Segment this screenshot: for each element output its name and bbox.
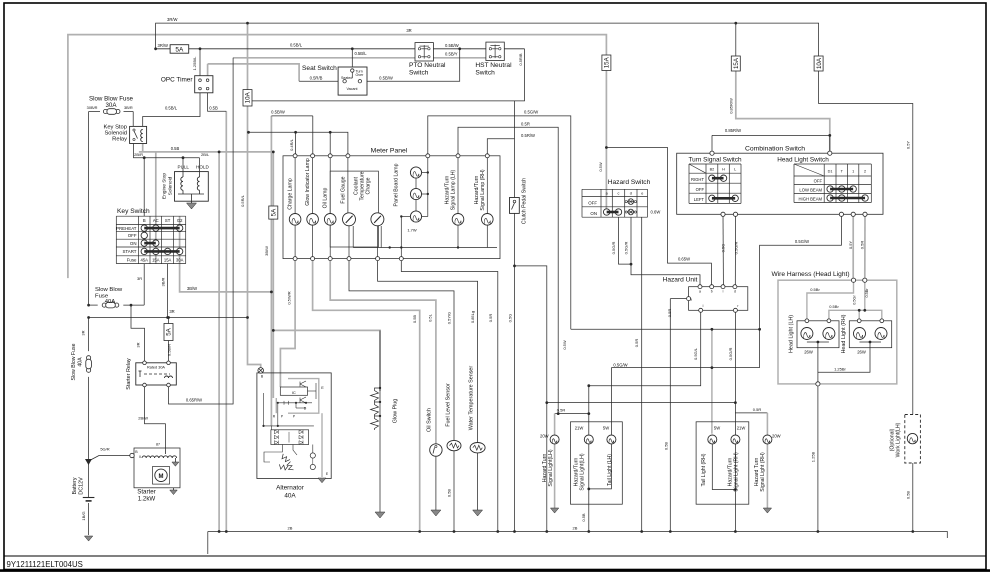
svg-text:Alternator: Alternator — [276, 485, 305, 492]
svg-text:0.85Lg: 0.85Lg — [470, 311, 475, 323]
svg-text:0.5W: 0.5W — [598, 162, 603, 172]
svg-text:3R: 3R — [136, 342, 141, 347]
svg-text:21W: 21W — [575, 426, 584, 431]
svg-text:26W: 26W — [857, 350, 866, 355]
svg-text:21W: 21W — [737, 426, 746, 431]
svg-text:Tail Light (LH): Tail Light (LH) — [607, 454, 613, 486]
svg-text:1.25B/L: 1.25B/L — [192, 56, 197, 71]
svg-text:0.5G/L: 0.5G/L — [693, 347, 698, 360]
svg-text:e: e — [641, 192, 643, 196]
svg-text:OFF: OFF — [128, 233, 137, 238]
svg-text:1: 1 — [852, 170, 854, 174]
svg-text:45A: 45A — [141, 258, 149, 263]
svg-text:0.5B/W: 0.5B/W — [445, 43, 459, 48]
svg-text:0.5G/W: 0.5G/W — [795, 239, 809, 244]
svg-text:9Y1211121ELT004US: 9Y1211121ELT004US — [7, 560, 83, 569]
svg-text:0.5B: 0.5B — [581, 513, 586, 522]
svg-text:15A: 15A — [152, 258, 160, 263]
svg-text:Over: Over — [356, 73, 365, 77]
svg-text:0.65W: 0.65W — [678, 257, 690, 262]
svg-text:Charge: Charge — [366, 177, 372, 194]
svg-text:26W: 26W — [804, 350, 813, 355]
svg-text:15A: 15A — [733, 57, 740, 69]
svg-text:START: START — [123, 249, 137, 254]
svg-text:E: E — [321, 386, 324, 390]
svg-text:0.5B: 0.5B — [447, 489, 452, 498]
svg-text:Head Light (RH): Head Light (RH) — [841, 314, 847, 353]
svg-text:Slow Blow Fuse: Slow Blow Fuse — [71, 343, 77, 380]
svg-text:HIGH BEAM: HIGH BEAM — [799, 197, 823, 202]
svg-text:b: b — [711, 290, 713, 294]
svg-text:87: 87 — [156, 443, 160, 447]
svg-text:Seat Switch: Seat Switch — [302, 65, 337, 72]
svg-text:LEFT: LEFT — [694, 197, 705, 202]
svg-text:0.5B: 0.5B — [906, 491, 911, 500]
svg-text:0.5G/R: 0.5G/R — [728, 348, 733, 361]
svg-text:Battery: Battery — [72, 477, 78, 494]
svg-text:0.5B/R: 0.5B/R — [167, 344, 172, 356]
svg-text:0.5G/W: 0.5G/W — [524, 110, 538, 115]
svg-text:1.25B: 1.25B — [811, 451, 816, 462]
svg-text:OFF: OFF — [696, 187, 705, 192]
svg-text:0.5B: 0.5B — [171, 146, 180, 151]
svg-text:PTO Neutral: PTO Neutral — [409, 62, 446, 69]
svg-text:a: a — [699, 290, 701, 294]
svg-text:0.5Br: 0.5Br — [865, 288, 869, 298]
svg-text:c: c — [618, 192, 620, 196]
svg-text:Water Temperature Senser: Water Temperature Senser — [469, 366, 475, 431]
svg-text:Switch: Switch — [409, 70, 429, 77]
svg-text:Meter Panel: Meter Panel — [371, 148, 408, 155]
svg-text:Rated 30A: Rated 30A — [147, 366, 165, 370]
svg-text:ST: ST — [165, 218, 171, 223]
svg-text:0.5R: 0.5R — [521, 121, 530, 126]
svg-text:20W: 20W — [540, 434, 549, 439]
svg-text:Hazard Unit: Hazard Unit — [663, 277, 698, 284]
svg-text:d: d — [630, 192, 632, 196]
svg-text:3R/W: 3R/W — [158, 43, 169, 48]
svg-text:0.5R: 0.5R — [860, 241, 865, 250]
svg-text:0.5B/W: 0.5B/W — [379, 76, 393, 81]
svg-text:0.5G: 0.5G — [721, 244, 726, 253]
svg-text:0.5G/R: 0.5G/R — [734, 242, 739, 255]
svg-text:0.5Gr: 0.5Gr — [853, 295, 857, 305]
svg-text:DC12V: DC12V — [79, 477, 85, 495]
svg-text:OPC Timer: OPC Timer — [161, 77, 193, 84]
svg-text:5W: 5W — [603, 426, 609, 431]
svg-text:Switch: Switch — [475, 70, 495, 77]
svg-text:0.85R/W: 0.85R/W — [729, 98, 734, 114]
svg-text:10A: 10A — [245, 91, 252, 103]
svg-text:30A: 30A — [176, 258, 184, 263]
svg-text:2B/W: 2B/W — [138, 416, 148, 421]
svg-text:3R: 3R — [81, 330, 86, 335]
svg-text:15A: 15A — [164, 258, 172, 263]
svg-text:0.5G/R: 0.5G/R — [624, 242, 629, 255]
svg-text:1.2kW: 1.2kW — [138, 496, 156, 503]
svg-text:0.5R: 0.5R — [667, 309, 672, 318]
svg-text:3B/W: 3B/W — [264, 246, 269, 256]
svg-text:0.5B: 0.5B — [664, 442, 669, 451]
svg-text:10A: 10A — [816, 57, 823, 69]
svg-text:Signal Light(LH): Signal Light(LH) — [548, 449, 554, 486]
svg-text:40A: 40A — [284, 493, 296, 500]
svg-text:0.5W/R: 0.5W/R — [287, 291, 292, 304]
svg-text:0.5Br: 0.5Br — [829, 304, 839, 309]
svg-text:Vacant: Vacant — [347, 87, 358, 91]
svg-text:IC: IC — [292, 390, 296, 395]
svg-text:0.5L: 0.5L — [428, 313, 433, 322]
svg-text:2B: 2B — [573, 526, 578, 531]
svg-text:D1: D1 — [828, 170, 833, 174]
svg-text:3R: 3R — [406, 28, 411, 33]
svg-text:3R/W: 3R/W — [167, 17, 178, 22]
svg-text:0.5R/B: 0.5R/B — [310, 76, 323, 81]
svg-text:RIGHT: RIGHT — [691, 177, 704, 182]
svg-text:5A: 5A — [271, 208, 278, 216]
svg-text:0.5B/L: 0.5B/L — [165, 106, 178, 111]
svg-text:Fuse: Fuse — [127, 257, 137, 262]
svg-text:0.5Y: 0.5Y — [906, 141, 911, 150]
svg-text:1B/G: 1B/G — [81, 511, 86, 520]
svg-text:Engine Stop: Engine Stop — [162, 173, 168, 199]
svg-text:0.5R/W: 0.5R/W — [521, 133, 535, 138]
svg-text:ON: ON — [130, 241, 137, 246]
svg-text:0.5R: 0.5R — [753, 407, 762, 412]
svg-text:0.5R: 0.5R — [557, 407, 566, 412]
svg-text:Key Switch: Key Switch — [117, 208, 150, 215]
svg-text:0.5R: 0.5R — [634, 339, 639, 348]
svg-text:a: a — [690, 298, 692, 302]
svg-text:Signal Light(LH): Signal Light(LH) — [580, 453, 586, 490]
svg-text:H: H — [722, 168, 725, 172]
svg-text:B2: B2 — [710, 168, 715, 172]
svg-text:Turn Signal Switch: Turn Signal Switch — [688, 157, 741, 164]
svg-text:30A: 30A — [105, 102, 117, 109]
svg-text:5A: 5A — [166, 327, 173, 335]
svg-text:0.5B/W: 0.5B/W — [271, 110, 285, 115]
svg-text:2B/L: 2B/L — [201, 152, 210, 157]
svg-text:3B/R: 3B/R — [124, 105, 133, 110]
svg-text:HOLD: HOLD — [196, 165, 209, 170]
svg-text:0.5B: 0.5B — [209, 106, 218, 111]
svg-text:3B/W: 3B/W — [187, 286, 197, 291]
svg-text:Tail Light (RH): Tail Light (RH) — [701, 453, 707, 486]
svg-text:Signal Light (RH): Signal Light (RH) — [760, 452, 766, 492]
svg-text:0.5R/L: 0.5R/L — [240, 194, 245, 207]
svg-text:0.5G/R: 0.5G/R — [611, 242, 616, 255]
svg-text:3R: 3R — [137, 276, 142, 281]
svg-text:40A: 40A — [78, 357, 84, 367]
svg-text:Starter Relay: Starter Relay — [126, 358, 132, 390]
svg-text:0.5R: 0.5R — [488, 314, 493, 323]
svg-text:HST Neutral: HST Neutral — [475, 62, 512, 69]
svg-text:20W: 20W — [772, 434, 781, 439]
svg-text:0.5R/B: 0.5R/B — [518, 53, 523, 66]
svg-text:B: B — [143, 218, 146, 223]
svg-text:Head Light Switch: Head Light Switch — [777, 157, 829, 164]
svg-text:Glow Indicator Lamp: Glow Indicator Lamp — [305, 158, 311, 206]
svg-text:3R: 3R — [169, 309, 174, 314]
svg-text:2B: 2B — [288, 526, 293, 531]
svg-text:Relay: Relay — [112, 137, 127, 143]
svg-text:0.6W: 0.6W — [651, 210, 661, 215]
svg-text:0.5B: 0.5B — [412, 315, 417, 324]
svg-text:Oil Switch: Oil Switch — [427, 408, 433, 432]
svg-text:OFF: OFF — [588, 201, 597, 206]
svg-text:Head Light (LH): Head Light (LH) — [789, 315, 795, 353]
svg-text:0.5B/L: 0.5B/L — [290, 43, 303, 48]
svg-text:Starter: Starter — [137, 489, 156, 496]
svg-text:Wire Harness (Head Light): Wire Harness (Head Light) — [771, 271, 849, 278]
svg-text:L: L — [734, 168, 736, 172]
svg-text:0.5G/W: 0.5G/W — [613, 363, 627, 368]
svg-text:Oil Lamp: Oil Lamp — [323, 188, 329, 209]
svg-text:Combination Switch: Combination Switch — [745, 145, 805, 152]
svg-text:2B/R: 2B/R — [134, 152, 143, 157]
svg-text:Clutch Pedal Switch: Clutch Pedal Switch — [522, 178, 528, 224]
svg-text:0.5W: 0.5W — [562, 340, 567, 350]
svg-text:1.7W: 1.7W — [407, 228, 417, 233]
svg-text:LOW BEAM: LOW BEAM — [799, 188, 822, 193]
svg-text:AC: AC — [153, 218, 159, 223]
svg-text:0.5Br: 0.5Br — [810, 287, 820, 292]
svg-text:Fuel Level Sensor: Fuel Level Sensor — [446, 383, 452, 427]
svg-text:PREHEAT: PREHEAT — [116, 226, 137, 231]
svg-text:0.5Y: 0.5Y — [848, 241, 853, 250]
svg-text:40A: 40A — [105, 299, 116, 305]
svg-text:0.5G: 0.5G — [508, 314, 513, 323]
svg-text:Work Light(LH): Work Light(LH) — [896, 422, 902, 457]
svg-text:Charge Lamp: Charge Lamp — [288, 178, 294, 210]
svg-text:0.4R/L: 0.4R/L — [289, 138, 294, 151]
svg-text:5A: 5A — [175, 47, 184, 54]
svg-text:Hazard Switch: Hazard Switch — [608, 179, 651, 186]
svg-text:15A: 15A — [604, 56, 611, 68]
svg-text:Signal Lamp (LH): Signal Lamp (LH) — [451, 170, 457, 211]
svg-text:Panel Board Lamp: Panel Board Lamp — [394, 163, 400, 206]
svg-text:Slow Blow: Slow Blow — [95, 287, 123, 293]
svg-text:Signal Light (RH): Signal Light (RH) — [734, 452, 740, 492]
svg-text:ON: ON — [590, 211, 597, 216]
svg-text:0.5Y/G: 0.5Y/G — [447, 312, 452, 324]
svg-text:0.5B/L: 0.5B/L — [354, 51, 367, 56]
svg-text:Signal Lamp (RH): Signal Lamp (RH) — [480, 169, 486, 210]
svg-text:OFF: OFF — [814, 179, 823, 184]
svg-text:0.5B/Y: 0.5B/Y — [445, 52, 458, 57]
svg-text:1.25Br: 1.25Br — [834, 366, 846, 371]
svg-text:0.65R/W: 0.65R/W — [186, 398, 202, 403]
svg-text:5G/R: 5G/R — [100, 447, 109, 452]
svg-text:M: M — [159, 474, 164, 480]
svg-text:Glow Plug: Glow Plug — [393, 399, 399, 424]
svg-text:Solenoid: Solenoid — [168, 176, 174, 195]
svg-text:Fuel Gauge: Fuel Gauge — [341, 176, 347, 203]
svg-text:30B/R: 30B/R — [87, 105, 98, 110]
svg-text:d: d — [734, 290, 736, 294]
svg-text:3B/R: 3B/R — [161, 277, 166, 286]
svg-text:2: 2 — [864, 170, 866, 174]
svg-text:5W: 5W — [714, 426, 720, 431]
svg-text:G2: G2 — [177, 218, 183, 223]
svg-text:Seated: Seated — [341, 76, 352, 80]
svg-text:PULL: PULL — [178, 165, 190, 170]
svg-text:0.85R/W: 0.85R/W — [725, 128, 741, 133]
